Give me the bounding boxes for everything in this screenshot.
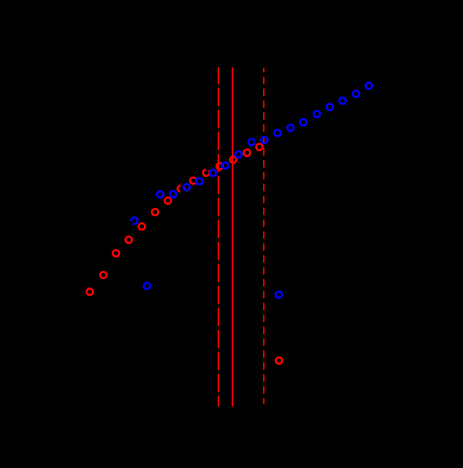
red outlier point (276, 357, 282, 363)
blue data point B5 (196, 178, 202, 184)
red data point R7 (165, 197, 171, 203)
occluding face over B9 right (255, 140, 259, 144)
red data point R2 (100, 272, 106, 278)
blue data point B16 (339, 98, 345, 104)
left dashed red vertical line (217, 67, 219, 406)
blue data point B11 (274, 130, 280, 136)
red data point R13 (244, 150, 250, 156)
red data point R9 (190, 177, 196, 183)
red data point R1 (87, 289, 93, 295)
blue data point B12 (287, 125, 293, 131)
occluding face over R8 bottom (180, 190, 185, 195)
blue data point B10 (261, 137, 267, 143)
blue data point B14 (314, 111, 320, 117)
red data point R10 (203, 170, 209, 176)
occluding face over R10 top (206, 167, 210, 171)
blue data point B4 (183, 184, 189, 190)
blue data point B8 (235, 151, 241, 157)
blue data point B13 (300, 119, 306, 125)
blue data point B2 (157, 191, 163, 197)
red data point R4 (126, 237, 132, 243)
blue data point B9 (248, 139, 254, 145)
blue data point B0 (131, 218, 137, 224)
occluding face over R8 top-right (181, 184, 184, 187)
red data point R8 (178, 185, 184, 191)
red data point R3 (113, 250, 119, 256)
red data point R6 (152, 209, 158, 215)
blue data point B6 (210, 170, 216, 176)
right dashed red vertical line (263, 68, 265, 404)
red data point R5 (139, 223, 145, 229)
solid red vertical line (231, 67, 233, 406)
red data point R14 (256, 144, 262, 150)
red data point R11 (217, 163, 223, 169)
blue data point B18 (366, 83, 372, 89)
blue data point B3 (170, 191, 176, 197)
blue data point B7 (222, 162, 228, 168)
blue data point B17 (353, 91, 359, 97)
blue outlier point (276, 291, 282, 297)
red data point R12 (230, 157, 236, 163)
occluding face over B0 lower-left (129, 221, 133, 225)
blue data point B1 (144, 283, 150, 289)
blue data point B15 (327, 104, 333, 110)
